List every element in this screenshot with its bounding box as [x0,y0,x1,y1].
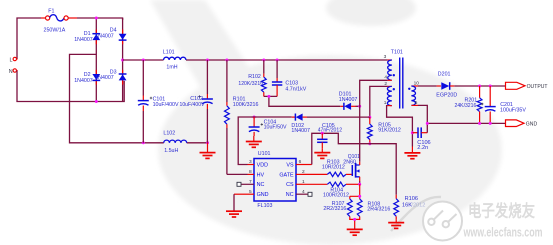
transformer T101 core [400,58,403,109]
capacitor C106 2.2n (Y-cap) [412,127,430,151]
svg-text:3: 3 [384,54,387,60]
ground: aux pin1 [404,147,420,159]
svg-text:OUTPUT: OUTPUT [527,84,548,90]
node: C104 top on VDD net [253,116,256,119]
svg-text:R106: R106 [405,196,418,202]
wire: L input rail up to fuse, top rail to bridge [17,18,123,59]
svg-text:1.5uH: 1.5uH [164,148,178,154]
resistor R108 2R4/3216 [357,199,390,217]
node: R201 bottom [478,122,481,125]
svg-text:L: L [10,58,13,64]
U101 pin 7 NC stub [237,179,254,186]
op-amp U101 FL103 controller box [254,151,296,209]
svg-text:GATE: GATE [279,172,294,178]
diode D3 1N4007 [95,70,126,82]
svg-text:2R2/3216: 2R2/3216 [323,206,346,212]
svg-text:1N4007: 1N4007 [291,128,310,134]
fuse F1 [41,9,77,34]
ground: U101 GND pin [226,211,242,218]
wire: secondary GND rail [418,105,506,123]
svg-text:CS: CS [286,182,294,188]
node: C201 bottom [489,122,492,125]
wire: Y-cap to secondary GND rail [426,123,428,132]
connector GND [506,120,538,128]
svg-text:1N4007: 1N4007 [95,33,114,39]
diode D4 1N4007 [95,28,126,40]
node: clamp network bottom junction [267,95,270,98]
node: R101 top on DC+ rail [225,59,228,62]
connector OUTPUT [506,82,548,90]
svg-text:L101: L101 [163,49,175,55]
node: DC+ takeoff on bridge column 2 [121,59,124,62]
wire: VS net from U101 through C105 tap to divider [303,164,312,166]
wire: DC- return jog from bridge col1 midpoint down to ground rail [70,54,208,142]
capacitor C104 10uF/50V (VDD) [249,117,287,136]
ground: primary DC- rail [200,143,216,159]
capacitor C201 100uF/35V [481,86,526,123]
inductor L102 1.5uH [163,130,186,154]
wire: transformer pin4 to MOSFET drain column [360,80,388,162]
svg-text:1N4007: 1N4007 [74,78,93,84]
capacitor C103 4.7n/1kV (clamp) [272,60,307,96]
svg-text:100R/2012: 100R/2012 [323,193,349,199]
svg-text:4.7n/1kV: 4.7n/1kV [285,86,306,92]
svg-text:U101: U101 [258,151,271,157]
resistor R107 2R2/3216 [323,199,352,217]
node: source / CS junction [358,183,361,186]
U101 pin 8 HV stub [248,169,255,175]
svg-text:10uF/400V: 10uF/400V [180,102,206,108]
svg-text:FL103: FL103 [257,203,272,209]
node: C106 / pin1 junction [411,131,414,134]
U101 pin 3 VDD stub [248,159,255,165]
capacitor C105 47nF/2012 [317,123,342,149]
U101 pin 2 GATE stub [296,169,305,175]
svg-text:10R/2012: 10R/2012 [322,165,345,171]
svg-text:120K/3216: 120K/3216 [238,81,263,87]
node: C102 top on DC+ rail [206,59,209,62]
svg-text:N: N [9,69,13,75]
svg-text:100K/3216: 100K/3216 [233,102,259,108]
resistor R201 24K/3216 [455,86,483,123]
node: VS divider junction [368,142,371,145]
svg-text:NC: NC [286,192,294,198]
svg-text:1N4007: 1N4007 [95,75,114,81]
svg-text:24K/3216: 24K/3216 [455,103,477,109]
wire: VDD to D102 [257,116,292,118]
node: D101 cathode on drain column [358,105,361,108]
svg-text:R102: R102 [248,74,261,80]
svg-text:100uF/35V: 100uF/35V [500,108,526,114]
diode D2 1N4007 [74,72,100,84]
wire: sense node to parallel sense resistors [350,184,360,199]
node: bottom rail junction at bridge column 1 [95,100,98,103]
resistor R104 100R/2012 (CS) [303,182,360,199]
diode D102 1N4007 (VDD charge) [291,114,369,134]
transformer primary winding pins 3-4 [384,54,395,81]
capacitor C102 10uF/400V [180,60,213,143]
wire: DC+ rail from bridge to transformer [123,59,388,61]
svg-text:/2012: /2012 [411,202,425,208]
svg-text:10uF/50V: 10uF/50V [264,124,287,130]
svg-text:8: 8 [249,169,252,175]
diode D1 1N4007 [74,31,100,43]
svg-text:F1: F1 [48,9,54,15]
U101 pin 4 NC stub [296,189,312,196]
svg-text:NC: NC [257,182,265,188]
U101 pin 5 GND stub and ground [234,189,254,211]
node: C102 bottom / primary ground [206,141,209,144]
inductor L101 1mH [163,49,186,70]
resistor R105 91K/2012 (VS divider upper) [367,117,401,144]
node: top rail junction at bridge column 1 [95,17,98,20]
resistor R101 100K/3216 (HV startup) [225,60,259,174]
svg-text:91K/2012: 91K/2012 [378,128,401,134]
node: aux winding / D102 junction [368,116,371,119]
svg-text:250W/1A: 250W/1A [44,27,66,33]
node: C103 top on DC+ rail [276,59,279,62]
svg-text:2N60: 2N60 [343,160,356,166]
svg-text:6: 6 [299,159,302,165]
ground: C105 [314,149,330,159]
svg-text:www.elecfans.com: www.elecfans.com [463,225,543,240]
bridge column 2 wires [122,18,124,102]
svg-text:L102: L102 [163,130,175,136]
port N [9,69,18,75]
U101 pin 6 VS stub [296,159,303,165]
node: sense bottom junction [353,218,356,221]
svg-text:5: 5 [415,100,418,106]
svg-text:电子发烧友: 电子发烧友 [468,201,535,221]
svg-text:2: 2 [384,81,387,87]
diode D201 EGP20D [436,71,457,98]
svg-text:1mH: 1mH [166,64,177,70]
svg-text:4: 4 [302,189,305,195]
wire: clamp bottom bracket to D101 [264,96,340,106]
ground: R106 [388,220,404,229]
wire: VDD net from U101 up to D102 and C104 [238,117,251,165]
transistor Q101 2N60 MOSFET [343,154,360,181]
svg-text:GND: GND [257,192,269,198]
resistor R102 120K/3216 (clamp) [238,60,266,96]
node: R102 top on DC+ rail [262,59,265,62]
node: sense resistor top bracket [358,195,361,198]
svg-text:5: 5 [249,189,252,195]
svg-text:HV: HV [257,172,265,178]
resistor R103 10R/2012 (gate) [303,160,352,177]
node: C101 bottom on ground rail [142,141,145,144]
svg-text:1N4007: 1N4007 [339,97,358,103]
diode D101 1N4007 (clamp) [339,91,359,110]
svg-text:EGP20D: EGP20D [436,93,457,99]
svg-text:3: 3 [249,159,252,165]
svg-text:GND: GND [526,121,538,127]
node: GND rail / pin5 / Y-cap [426,122,429,125]
svg-text:47nF/2012: 47nF/2012 [318,128,343,134]
svg-text:2.2n: 2.2n [417,145,428,151]
transformer aux winding pins 2-1 [384,81,395,106]
wire: MOSFET source down to sense node [359,181,361,184]
svg-text:7: 7 [249,179,252,185]
svg-text:VDD: VDD [257,162,268,168]
svg-text:4: 4 [384,75,387,81]
svg-text:10uF/400V: 10uF/400V [153,102,179,108]
node: C105 tap on VS net [321,132,324,135]
node: R201 top [478,85,481,88]
bridge column 1 wires [95,18,97,102]
svg-text:2R4/3216: 2R4/3216 [367,207,390,213]
transformer secondary winding pins 10-5 [408,80,419,106]
node: C201 top [489,85,492,88]
U101 pin 1 CS stub [296,179,305,185]
wire: sense resistor bottom bracket [350,217,360,229]
capacitor C101 10uF/400V [138,60,179,143]
svg-text:1: 1 [384,100,387,106]
svg-text:1N4007: 1N4007 [74,37,93,43]
svg-text:VS: VS [286,162,294,168]
wire: secondary output rail [418,85,506,87]
node: C101 top on DC+ rail [142,59,145,62]
svg-text:D201: D201 [438,71,451,77]
port L [10,57,18,63]
wire: transformer pin2 (aux) down to R105 [370,86,388,117]
wire: N input down and bottom AC rail [17,71,124,102]
ground: sense resistors [347,228,363,235]
wire: aux pin1 to C106 and primary ground [387,106,413,147]
ground: C104 [246,136,262,147]
resistor R106 16K/2012 (VS divider lower) [394,195,426,220]
svg-text:T101: T101 [391,49,403,55]
